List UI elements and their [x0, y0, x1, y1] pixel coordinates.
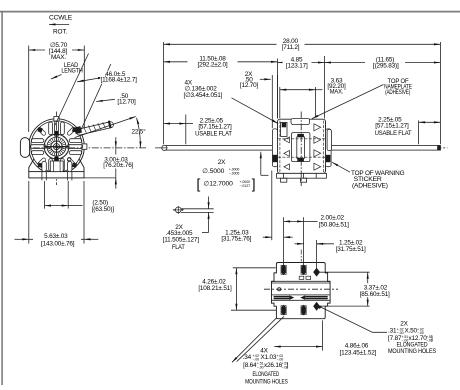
lead length extension line B: [79, 64, 111, 134]
hub knurl ring: [47, 138, 65, 156]
bottom view vertical centerline stub: [300, 250, 302, 262]
drain hole: [68, 157, 71, 160]
4.86 dimension line: [274, 346, 322, 348]
svg-text:MAX.: MAX.: [51, 54, 66, 61]
svg-text:[50.80±.51]: [50.80±.51]: [319, 221, 349, 228]
svg-text:[57.15±1.27]: [57.15±1.27]: [375, 122, 409, 129]
left 2.25 usable flat extension: [185, 115, 187, 145]
slot outline top-right: [301, 265, 306, 274]
svg-text:.31: .31: [388, 328, 397, 335]
end view vertical centerline: [56, 112, 58, 186]
diagonal vent slot SW: [37, 157, 46, 166]
base center cutout: [50, 161, 63, 172]
22.5 degree angle arc: [137, 118, 141, 148]
5.63 extension lines: [28, 181, 30, 244]
svg-text:]: ]: [252, 177, 256, 192]
lead bundle end tick: [108, 120, 112, 128]
4X dia .136 leader: [232, 98, 279, 124]
dia 5.70 dimension line: [29, 49, 85, 51]
vent triangles left column: [284, 137, 290, 170]
slot outline bottom-left: [281, 306, 286, 315]
vent slot group top: [49, 122, 53, 135]
svg-text:2X: 2X: [218, 159, 226, 166]
svg-text:[12.70]: [12.70]: [240, 82, 259, 89]
warning sticker leader: [332, 162, 350, 172]
svg-text:[(295.83)]: [(295.83)]: [373, 62, 399, 69]
right bearing boss: [326, 129, 332, 167]
svg-text:[108.21±.51]: [108.21±.51]: [198, 285, 232, 292]
drawing frame left border: [1, 11, 3, 385]
hub ring circle: [47, 137, 66, 156]
28.00 right extension line: [439, 42, 441, 144]
2.00 dimension line: [284, 220, 304, 222]
slot inner end dark bottom: [55, 157, 58, 162]
svg-text:[123.17]: [123.17]: [286, 62, 308, 69]
end view outer circle: [29, 119, 85, 175]
dia 5.70 left extension line: [28, 46, 30, 133]
right 2.25 usable flat extension: [418, 121, 420, 145]
mounting slot top-left: [281, 264, 286, 275]
lead length dimension line: [77, 77, 104, 82]
1.25 (.03) dimension arrows: [263, 236, 272, 238]
end view inner circle: [31, 121, 82, 172]
nameplate: [291, 118, 310, 124]
svg-text:x26.16: x26.16: [264, 362, 283, 369]
end view base bottom extension to 3.00 dim: [84, 177, 116, 179]
side view base plate: [277, 173, 327, 178]
base foot tick right: [67, 172, 69, 181]
svg-text:[711.2]: [711.2]: [282, 44, 300, 51]
svg-text:ELONGATED: ELONGATED: [253, 371, 280, 378]
bottom view diamond column centerline: [316, 265, 318, 316]
svg-text:[143.00±.76]: [143.00±.76]: [41, 240, 75, 247]
svg-text:2X: 2X: [400, 320, 408, 327]
left bearing lock black: [273, 155, 278, 162]
end view shell seam tab east: [82, 144, 87, 149]
(2.50) extension lines: [44, 181, 46, 209]
svg-text:[292.2±2.0]: [292.2±2.0]: [198, 61, 228, 68]
shaft bore center: [55, 145, 58, 148]
side view body: [278, 119, 326, 173]
bottom view slot column centerline right: [303, 263, 305, 319]
2X elongated holes leader: [320, 307, 387, 333]
hub bore circle: [53, 144, 59, 150]
2X .50 extension pair: [271, 75, 273, 128]
slot outline bottom-right: [301, 306, 306, 315]
5.63 dimension line: [15, 238, 29, 240]
bottom view centerline: [264, 288, 338, 290]
bottom view slot column centerline left: [283, 263, 285, 319]
svg-text:5.63±.03: 5.63±.03: [44, 233, 68, 240]
left bearing boss: [272, 129, 277, 167]
.50 leader: [96, 99, 115, 101]
22.5 degree lead line: [75, 117, 136, 138]
svg-text:−.0005: −.0005: [229, 172, 240, 176]
diamond hole bottom: [313, 302, 320, 311]
lead length leader: [51, 75, 62, 80]
slot outline top-left: [281, 265, 286, 274]
svg-text:USABLE FLAT: USABLE FLAT: [375, 130, 412, 137]
end view base left leg: [29, 159, 34, 172]
diagonal vent slot NW: [37, 127, 46, 136]
right 2.25 dimension line: [419, 121, 441, 123]
base foot tick left: [41, 172, 43, 181]
.453 dimension arrows: [208, 197, 210, 209]
11.50 dimension line: [164, 61, 278, 63]
bottom view flange band lower: [272, 294, 331, 296]
svg-text:∅12.7000: ∅12.7000: [204, 180, 234, 187]
latch cutout left: [299, 276, 304, 279]
svg-text:[31.75±.51]: [31.75±.51]: [336, 246, 366, 253]
4.85 dimension line: [278, 62, 325, 64]
lead bushing black cap: [282, 123, 286, 128]
CCW rotation arrow: [49, 23, 69, 25]
hub outer circle: [44, 134, 69, 159]
slot column extension lines: [283, 217, 285, 264]
bottom view flange band upper: [272, 280, 331, 282]
svg-text:[8.64: [8.64: [243, 362, 257, 369]
vent triangles right column: [314, 124, 321, 170]
bottom view outline: [272, 263, 331, 319]
3.63 dimension line: [280, 89, 316, 91]
3.63 extension lines: [279, 87, 281, 118]
mounting slot bottom-right: [301, 305, 306, 316]
svg-text:−.00: −.00: [257, 366, 264, 370]
top bolt black cap: [297, 134, 304, 137]
lead length extension line A: [55, 54, 89, 126]
svg-text:MOUNTING HOLES: MOUNTING HOLES: [388, 348, 436, 355]
vent slot group right: [69, 139, 82, 143]
svg-text:[31.75±.76]: [31.75±.76]: [221, 236, 251, 243]
inner rotor rect: [297, 137, 305, 158]
through-bolt SE: [72, 163, 77, 168]
diagonal vent slot NE: [67, 127, 76, 136]
svg-text:∅.5000: ∅.5000: [202, 168, 224, 175]
4.26 extension lines: [233, 267, 276, 269]
nameplate leader: [312, 85, 384, 119]
svg-text:X.50: X.50: [405, 328, 418, 335]
elongated hole right (horizontal): [305, 296, 327, 299]
diamond hole top: [313, 268, 320, 277]
svg-text:[∅3.454±.051]: [∅3.454±.051]: [184, 92, 223, 99]
1.25 (.02) dimension arrows: [295, 243, 304, 245]
3.37 dimension line: [367, 272, 369, 306]
stator dashed lines: [279, 121, 281, 173]
through-bolt NW: [38, 127, 43, 132]
svg-text:[1168.4±12.7]: [1168.4±12.7]: [100, 77, 137, 84]
diagonal vent slot SE: [67, 157, 76, 166]
through-bolt SW: [38, 163, 43, 168]
lead bundle hatch: [84, 122, 106, 133]
bottom bolt black cap: [297, 158, 304, 161]
2X dia .5000 leader: [260, 152, 262, 176]
left shaft: [164, 146, 278, 151]
shaft flat detail circle: [175, 207, 181, 213]
svg-text:CCWLE: CCWLE: [49, 15, 72, 22]
4X elongated holes leader 1: [232, 318, 277, 363]
svg-text:ROT.: ROT.: [53, 28, 67, 35]
svg-text:[11.505±.127]: [11.505±.127]: [163, 237, 200, 244]
28.00 left extension line: [163, 42, 165, 144]
body vertical centerline: [300, 112, 302, 187]
left lead bushing: [281, 122, 287, 136]
motor shaft centerline: [155, 147, 448, 149]
svg-text:MAX.: MAX.: [330, 89, 344, 96]
svg-text:[85.60±.51]: [85.60±.51]: [360, 291, 390, 298]
body left face extension line: [277, 59, 279, 119]
dia 5.70 right extension line: [83, 46, 85, 132]
svg-text:X1.03: X1.03: [261, 354, 277, 361]
svg-text:22.5°: 22.5°: [131, 127, 146, 135]
svg-text:MOUNTING HOLES: MOUNTING HOLES: [245, 378, 288, 385]
right shaft end cap: [437, 145, 441, 150]
bottom view pilot hole: [278, 288, 281, 291]
lead clamp: [74, 126, 82, 134]
left shaft end symbol: [162, 145, 167, 150]
svg-text:[: [: [197, 177, 201, 192]
svg-text:LENGTH: LENGTH: [61, 68, 83, 75]
svg-text:(ADHESIVE): (ADHESIVE): [385, 89, 410, 96]
3.00 dimension lower arrow: [115, 178, 117, 189]
slot inner end dark top: [55, 131, 58, 136]
3.37 extension lines: [319, 271, 370, 273]
right hub cap: [327, 129, 331, 150]
svg-text:USABLE FLAT: USABLE FLAT: [195, 130, 232, 137]
end view horizontal centerline: [21, 147, 146, 149]
drawing frame top border: [0, 11, 460, 13]
end view left mounting tab: [20, 138, 29, 158]
vent slot group bottom: [49, 159, 53, 172]
3.00 dimension upper arrow: [115, 137, 117, 148]
svg-text:(ADHESIVE): (ADHESIVE): [352, 182, 388, 189]
right shaft: [326, 146, 441, 151]
shaft flat depth lines: [181, 208, 214, 210]
(2.50) dimension line: [45, 205, 69, 207]
mounting slot bottom-left: [281, 305, 286, 316]
svg-text:[76.20±.76]: [76.20±.76]: [103, 162, 133, 169]
svg-text:[12.70]: [12.70]: [117, 99, 136, 106]
vent slot group left: [31, 139, 44, 143]
base foot slot left: [42, 161, 46, 171]
svg-text:.34: .34: [243, 354, 252, 361]
4.26 dimension line: [235, 268, 237, 310]
svg-text:[57.15±1.27]: [57.15±1.27]: [198, 123, 232, 130]
side view right foot tab: [300, 178, 306, 182]
side view base ticks: [283, 173, 285, 178]
elongated hole left (horizontal): [274, 296, 290, 299]
left column long extension line: [271, 171, 273, 241]
base foot slot right: [68, 161, 72, 171]
body right face extension line: [324, 56, 326, 119]
end view base right leg: [79, 159, 84, 172]
lead bundle: [76, 122, 113, 135]
center frame rect: [292, 133, 310, 162]
4X elongated holes leader 2: [237, 316, 284, 361]
left 2.25 dimension line: [164, 123, 186, 125]
end view base plate: [29, 172, 84, 178]
end view shell seam tab north: [54, 116, 59, 121]
hub inner circle: [51, 141, 62, 152]
side view left foot tab: [281, 178, 287, 182]
svg-text:FLAT: FLAT: [172, 244, 185, 251]
28.00 dimension line: [164, 43, 441, 45]
(11.65) dimension line: [325, 62, 441, 64]
svg-text:−.0127: −.0127: [240, 184, 251, 188]
through-bolt NE: [72, 127, 77, 132]
hub bold cross: [44, 146, 68, 148]
right bearing lock black: [326, 155, 331, 162]
svg-text:[123.45±1.52]: [123.45±1.52]: [340, 349, 377, 356]
svg-text:[(63.50)]: [(63.50)]: [92, 206, 115, 213]
mounting slot top-right: [301, 264, 306, 275]
2X .50 leader: [260, 78, 271, 80]
latch cutout right: [306, 276, 311, 279]
4.86 right extension line: [322, 320, 324, 350]
